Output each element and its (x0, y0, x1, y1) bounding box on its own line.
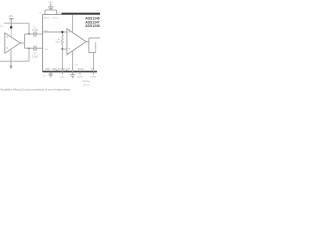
header rule (62, 13, 101, 15)
wire U1 V- drop (10, 50, 12, 66)
capacitor C2 (25, 47, 34, 49)
ADC block bottom edge (89, 52, 96, 54)
svg-text:ADS1248: ADS1248 (85, 24, 99, 28)
stub below SCLK (79, 72, 81, 75)
svg-text:+5V: +5V (8, 14, 13, 18)
junction dot C1 lead (28, 33, 30, 35)
wire lower input stub (62, 48, 67, 50)
ADC block top edge (89, 37, 100, 39)
IC box U2 left edge (42, 14, 44, 71)
svg-text:Simplified Wiring Circuits (co: Simplified Wiring Circuits (continued at… (0, 88, 70, 92)
svg-text:DOUT: DOUT (90, 77, 97, 79)
wire input to PGA (43, 31, 67, 33)
op-amp U1 plus mark (6, 36, 8, 39)
op-amp U1 (5, 33, 20, 53)
wire feedback drop (28, 48, 30, 61)
node A junction dot (10, 26, 13, 29)
ADC block left edge (88, 38, 90, 53)
wire supply split (45, 9, 57, 11)
svg-text:VIN: VIN (44, 49, 48, 51)
ground symbol mid (70, 73, 75, 76)
svg-text:IN GND: IN GND (57, 69, 65, 71)
ground symbol left (48, 73, 53, 76)
svg-text:SPI Bus: SPI Bus (83, 81, 91, 83)
IC box U2 top edge (43, 13, 62, 15)
svg-text:CS: CS (91, 69, 95, 71)
ADC block right edge (95, 42, 97, 53)
PGA amplifier U3 (67, 29, 86, 55)
supply stem lower (50, 9, 52, 10)
svg-text:(1): (1) (39, 13, 42, 15)
wire supply to node A (10, 19, 12, 27)
wire rail drop (28, 23, 30, 34)
wire RG column to bottom pin (61, 49, 63, 72)
resistor RG (61, 33, 63, 46)
PGA minus mark (68, 47, 70, 50)
PGA plus mark (68, 31, 70, 34)
junction dot RG top (61, 31, 63, 33)
wire op-amp V+ pin (10, 28, 12, 37)
stub below CS (92, 72, 94, 75)
supply terminal bar (9, 17, 14, 20)
arrow down (10, 66, 13, 70)
wire DVDD pin (56, 10, 58, 14)
svg-text:SCLK: SCLK (77, 77, 83, 79)
pin tick 57 (56, 70, 58, 72)
wire return rail (0, 60, 29, 62)
wire PGA V+ feed (72, 14, 74, 32)
wire output column (24, 34, 26, 48)
wire top rail (4, 22, 29, 24)
svg-text:0.1µF: 0.1µF (32, 55, 39, 58)
svg-text:AVDD: AVDD (44, 17, 50, 20)
op-amp U1 minus mark (6, 47, 8, 50)
wire PGA output (86, 41, 89, 43)
supply plate bars (48, 6, 53, 9)
supply stem (50, 4, 52, 7)
svg-text:GND: GND (45, 69, 50, 71)
svg-text:DVDD: DVDD (53, 18, 59, 20)
IC box U2 bottom edge (43, 71, 97, 73)
svg-text:(MCU): (MCU) (83, 85, 89, 87)
wire ADC to bottom pin (93, 53, 95, 72)
capacitor C1 (25, 33, 34, 35)
junction dot RG bottom (61, 48, 63, 50)
wire RG lower stub (61, 46, 63, 49)
junction dot C2 lead (28, 47, 30, 49)
svg-text:500Ω: 500Ω (55, 42, 60, 44)
svg-text:SCLK: SCLK (78, 69, 84, 71)
wire AVDD pin (44, 10, 46, 14)
stub below RG column (61, 72, 63, 75)
wire U1 output (20, 42, 24, 44)
pin tick 66.5 (66, 70, 68, 72)
wire PGA V- to ground (72, 52, 74, 75)
pin stub gnd left (50, 72, 52, 74)
svg-text:0.1µF: 0.1µF (32, 29, 39, 32)
